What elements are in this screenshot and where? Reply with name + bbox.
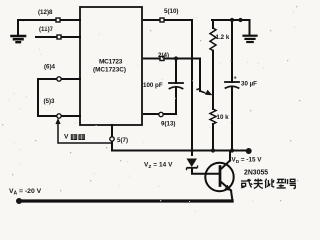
svg-text:1.2 k: 1.2 k: [216, 34, 230, 41]
svg-text:2N3055: 2N3055: [244, 170, 268, 177]
svg-text:30 µF: 30 µF: [241, 81, 257, 88]
svg-text:100 pF: 100 pF: [143, 82, 163, 89]
svg-text:10 k: 10 k: [217, 114, 230, 121]
svg-text:(5)3: (5)3: [44, 98, 56, 105]
svg-text:9(13): 9(13): [161, 121, 175, 128]
svg-text:5(10): 5(10): [164, 8, 178, 15]
svg-text:MC1723: MC1723: [99, 59, 123, 66]
svg-text:(MC1723C): (MC1723C): [93, 67, 126, 74]
svg-text:V: V: [64, 134, 69, 141]
svg-text:2(4): 2(4): [158, 52, 169, 59]
svg-text:(11)7: (11)7: [39, 26, 54, 33]
svg-text:(12)8: (12)8: [38, 9, 53, 16]
svg-text:5(7): 5(7): [117, 137, 128, 144]
svg-text:(6)4: (6)4: [44, 63, 56, 70]
svg-text:+: +: [234, 76, 237, 82]
